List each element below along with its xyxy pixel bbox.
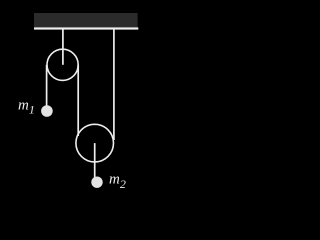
- pulley P2: [76, 124, 114, 162]
- mass m1 ball: [41, 105, 53, 117]
- ceiling underline: [34, 27, 138, 29]
- wire spoke P2 to m2: [94, 143, 96, 177]
- rope middle (P1 to P2): [77, 65, 79, 136]
- wire hanger to pulley P1: [62, 30, 64, 65]
- mass m2 ball: [91, 177, 102, 188]
- ceiling bar: [34, 13, 138, 28]
- pulley P1: [47, 49, 78, 80]
- rope right (bar to P2): [113, 30, 115, 141]
- rope to m1: [46, 65, 48, 106]
